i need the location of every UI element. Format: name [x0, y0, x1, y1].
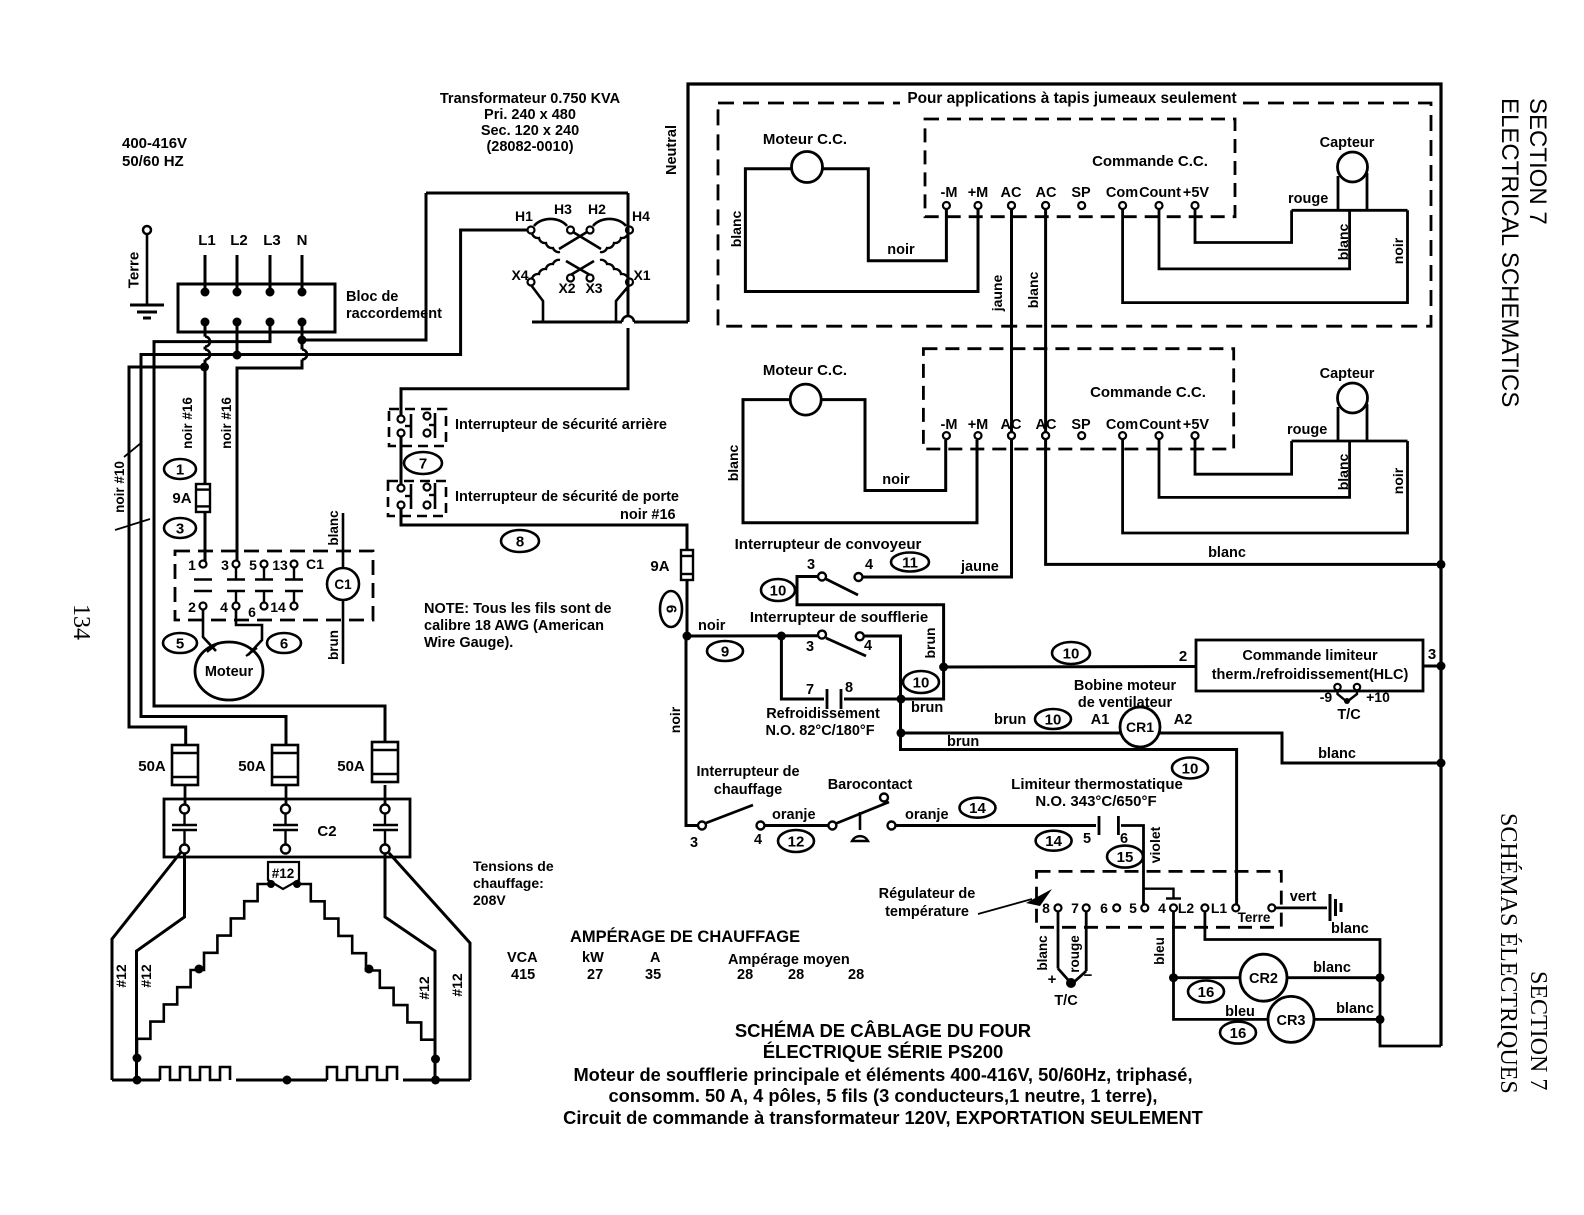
svg-text:Moteur C.C.: Moteur C.C.	[763, 362, 847, 379]
svg-text:X1: X1	[633, 267, 650, 283]
wire X1 to secondary bus	[616, 285, 630, 322]
wire noir M1	[823, 169, 947, 261]
svg-text:6: 6	[1100, 900, 1108, 916]
svg-text:5: 5	[1083, 831, 1091, 847]
svg-text:Capteur: Capteur	[1320, 135, 1375, 151]
heater node #12 tag	[267, 862, 301, 889]
svg-text:+10: +10	[1366, 689, 1390, 705]
thermal limit control HLC box	[1196, 640, 1423, 691]
svg-text:consomm. 50 A, 4 pôles, 5 fils: consomm. 50 A, 4 pôles, 5 fils (3 conduc…	[609, 1085, 1158, 1106]
temperature regulator label	[879, 886, 1052, 920]
svg-text:9A: 9A	[650, 558, 669, 575]
svg-text:(28082-0010): (28082-0010)	[486, 139, 573, 155]
svg-text:C2: C2	[317, 823, 336, 840]
transformer label	[440, 91, 621, 155]
svg-text:+5V: +5V	[1183, 417, 1210, 433]
svg-text:VCA: VCA	[507, 950, 538, 966]
transformer primary winding	[528, 219, 634, 252]
C1 terminal labels bottom	[188, 599, 286, 620]
svg-text:L3: L3	[263, 232, 281, 249]
svg-text:Terre: Terre	[1238, 910, 1271, 925]
svg-text:SCHÉMAS ÉLECTRIQUES: SCHÉMAS ÉLECTRIQUES	[1495, 813, 1521, 1094]
svg-text:14: 14	[270, 599, 286, 615]
node 14 oval (left)	[960, 798, 996, 818]
fuse F1 50A	[138, 745, 198, 785]
svg-text:3: 3	[806, 639, 814, 655]
wire rouge S2	[1195, 422, 1327, 474]
svg-text:Bloc de: Bloc de	[346, 289, 398, 305]
conveyor switch	[807, 557, 873, 595]
svg-text:blanc: blanc	[1025, 272, 1041, 309]
svg-text:AMPÉRAGE DE CHAUFFAGE: AMPÉRAGE DE CHAUFFAGE	[570, 927, 800, 946]
wire C1-2 to motor	[203, 610, 218, 653]
svg-text:noir: noir	[887, 242, 915, 258]
rear safety switch Interrupteur de securite arriere	[389, 409, 446, 446]
svg-text:4: 4	[754, 832, 762, 848]
wire noir S2	[1123, 439, 1408, 533]
wire CR3 blanc	[1314, 1001, 1385, 1024]
svg-text:Ampérage moyen: Ampérage moyen	[728, 952, 850, 968]
node 6 oval	[267, 633, 301, 653]
svg-text:10: 10	[1182, 760, 1199, 777]
heater rail dots	[133, 1076, 441, 1085]
wire transformer top feed	[426, 192, 628, 195]
amperage table values	[511, 967, 864, 983]
sensor bar (lower)	[1292, 440, 1408, 443]
svg-text:blanc: blanc	[725, 445, 741, 482]
svg-text:Interrupteur de convoyeur: Interrupteur de convoyeur	[735, 536, 922, 553]
svg-text:AC: AC	[1001, 185, 1022, 201]
blower switch	[806, 631, 872, 656]
wire noir to blower switch	[687, 632, 818, 641]
svg-text:Commande C.C.: Commande C.C.	[1092, 153, 1208, 170]
cooling contact label	[765, 706, 880, 739]
svg-text:blanc: blanc	[1313, 960, 1351, 976]
svg-text:#12: #12	[416, 976, 432, 1000]
svg-text:6: 6	[280, 635, 288, 652]
wire secondary bus with crossover	[532, 316, 688, 322]
svg-text:chauffage:: chauffage:	[473, 875, 544, 891]
svg-text:L2: L2	[1178, 900, 1195, 916]
svg-text:H1: H1	[515, 208, 533, 224]
relay coil C1	[327, 568, 359, 600]
blower motor Moteur	[195, 642, 263, 700]
svg-text:N.O. 343°C/650°F: N.O. 343°C/650°F	[1035, 793, 1156, 810]
node 10 oval (regulator feed)	[1172, 758, 1208, 779]
wire rouge S1	[1195, 191, 1328, 243]
svg-text:+M: +M	[968, 185, 989, 201]
svg-text:SCHÉMA DE CÂBLAGE DU FOUR: SCHÉMA DE CÂBLAGE DU FOUR	[735, 1020, 1031, 1041]
svg-text:A: A	[650, 950, 661, 966]
svg-text:35: 35	[645, 967, 661, 983]
svg-text:8: 8	[1042, 900, 1050, 916]
svg-text:27: 27	[587, 967, 603, 983]
svg-text:Terre: Terre	[125, 252, 142, 288]
svg-text:NOTE: Tous les fils sont de: NOTE: Tous les fils sont de	[424, 601, 611, 617]
svg-text:Neutral: Neutral	[664, 125, 680, 175]
transformer secondary winding	[528, 260, 634, 286]
svg-text:brun: brun	[947, 734, 979, 750]
transformer terminal labels H	[515, 201, 650, 224]
DC motor M2	[790, 384, 821, 415]
svg-text:Com: Com	[1106, 417, 1138, 433]
svg-text:50A: 50A	[138, 758, 166, 775]
wire noir S1	[1123, 209, 1408, 303]
relay coil CR3	[1268, 996, 1314, 1042]
svg-text:jaune: jaune	[960, 559, 999, 575]
svg-text:noir: noir	[667, 706, 683, 733]
svg-text:noir: noir	[1390, 237, 1406, 264]
svg-text:SECTION 7: SECTION 7	[1524, 98, 1551, 225]
svg-text:10: 10	[1045, 711, 1062, 728]
svg-text:violet: violet	[1147, 826, 1163, 863]
svg-text:#12: #12	[449, 973, 465, 997]
DC control box (upper)	[925, 119, 1235, 217]
terminal labels lower control	[941, 417, 1210, 433]
svg-text:415: 415	[511, 967, 535, 983]
wire blanc stub to C1 coil	[326, 510, 343, 568]
relay coil CR2	[1240, 954, 1287, 1001]
wire heater inner right	[385, 853, 435, 1080]
svg-text:oranje: oranje	[772, 807, 816, 823]
wire heater outer left	[112, 852, 181, 1080]
svg-text:3: 3	[690, 835, 698, 851]
svg-text:N: N	[297, 232, 308, 249]
wire L3 to fuse F3 feed	[154, 324, 385, 741]
amperage table headers	[507, 950, 850, 968]
svg-text:1: 1	[176, 461, 184, 478]
node 8 oval	[501, 530, 539, 552]
svg-text:7: 7	[806, 682, 814, 698]
svg-text:12: 12	[788, 833, 805, 850]
svg-text:28: 28	[788, 967, 804, 983]
svg-text:3: 3	[807, 557, 815, 573]
cooling contact Refroidissement	[781, 636, 943, 709]
svg-text:10: 10	[1063, 645, 1080, 662]
node 9 oval (vertical)	[660, 591, 682, 627]
svg-text:5: 5	[176, 635, 184, 652]
junction dots blower	[897, 663, 949, 738]
svg-text:blanc: blanc	[1331, 921, 1369, 937]
svg-text:3: 3	[1428, 646, 1436, 663]
node 14 oval (right)	[1036, 831, 1072, 851]
svg-text:X2: X2	[558, 280, 575, 296]
fuse F2 50A	[238, 745, 298, 785]
svg-text:oranje: oranje	[905, 807, 949, 823]
heating switch	[690, 805, 765, 851]
svg-text:6: 6	[248, 604, 256, 620]
svg-text:Capteur: Capteur	[1320, 366, 1375, 382]
svg-text:3: 3	[176, 520, 184, 537]
sensor bar (upper)	[1292, 209, 1408, 212]
svg-text:1: 1	[188, 557, 196, 573]
svg-text:7: 7	[419, 455, 427, 472]
svg-text:de ventilateur: de ventilateur	[1078, 695, 1173, 711]
svg-text:Régulateur de: Régulateur de	[879, 886, 976, 902]
svg-text:Limiteur thermostatique: Limiteur thermostatique	[1011, 776, 1183, 793]
svg-text:brun: brun	[326, 630, 341, 660]
wire heater inner left	[137, 853, 185, 1080]
node 3 oval	[164, 518, 196, 538]
svg-text:X3: X3	[585, 280, 602, 296]
node 5 oval	[163, 633, 197, 653]
svg-text:noir #16: noir #16	[180, 397, 195, 449]
heater junction dots	[133, 965, 441, 1064]
svg-text:Count: Count	[1139, 417, 1181, 433]
heating switch label	[696, 764, 799, 798]
svg-text:50A: 50A	[337, 758, 365, 775]
svg-text:Circuit de commande à transfor: Circuit de commande à transformateur 120…	[563, 1107, 1203, 1128]
svg-text:Count: Count	[1139, 185, 1181, 201]
wire door switch to fuse 9A	[401, 509, 687, 550]
svg-text:9: 9	[663, 605, 680, 613]
wire L2 bus to transformer H1	[141, 230, 528, 744]
wire A2 to blanc bus	[1160, 712, 1446, 768]
svg-text:Bobine moteur: Bobine moteur	[1074, 678, 1177, 694]
terminal block Bloc de raccordement	[178, 255, 335, 332]
svg-text:therm./refroidissement(HLC): therm./refroidissement(HLC)	[1212, 667, 1409, 683]
wire X4 to secondary bus	[531, 285, 543, 322]
svg-text:Commande C.C.: Commande C.C.	[1090, 384, 1206, 401]
wire blanc S2	[1159, 439, 1351, 497]
thermocouple T/C (regulator)	[1035, 911, 1093, 1009]
feeder pins overlay	[1008, 202, 1049, 439]
wire noir M2	[822, 400, 946, 491]
svg-text:X4: X4	[511, 267, 528, 283]
contactor C1 terminals	[200, 561, 298, 610]
svg-text:noir: noir	[698, 618, 726, 634]
svg-text:C1: C1	[334, 577, 352, 592]
svg-text:jaune: jaune	[989, 275, 1005, 313]
svg-text:blanc: blanc	[1335, 454, 1351, 491]
svg-text:CR3: CR3	[1276, 1013, 1305, 1029]
svg-text:A1: A1	[1091, 712, 1110, 728]
svg-text:noir: noir	[1390, 467, 1406, 494]
svg-text:4: 4	[220, 599, 228, 615]
wire oranje 2	[896, 807, 1097, 826]
svg-text:+5V: +5V	[1183, 185, 1210, 201]
svg-text:L1: L1	[1211, 900, 1228, 916]
svg-text:4: 4	[865, 557, 873, 573]
svg-text:blanc: blanc	[1208, 545, 1246, 561]
svg-text:blanc: blanc	[326, 510, 341, 546]
wire noir down to heat switch	[667, 636, 699, 826]
svg-text:10: 10	[770, 582, 787, 599]
svg-text:10: 10	[913, 674, 930, 691]
svg-text:Pri. 240 x 480: Pri. 240 x 480	[484, 107, 576, 123]
svg-text:15: 15	[1117, 849, 1134, 866]
svg-text:H4: H4	[632, 208, 650, 224]
contactor C1 box	[175, 551, 373, 620]
wire heater outer right	[389, 853, 470, 1080]
svg-text:134: 134	[68, 604, 94, 640]
DC control box (lower)	[923, 349, 1233, 449]
svg-text:ÉLECTRIQUE SÉRIE PS200: ÉLECTRIQUE SÉRIE PS200	[763, 1041, 1004, 1062]
svg-text:brun: brun	[911, 700, 943, 716]
fan motor coil label	[1074, 678, 1177, 711]
svg-text:Tensions de: Tensions de	[473, 858, 554, 874]
svg-text:Interrupteur de soufflerie: Interrupteur de soufflerie	[750, 609, 928, 626]
svg-text:Refroidissement: Refroidissement	[766, 706, 880, 722]
svg-text:blanc: blanc	[1035, 935, 1050, 971]
wire 10 to HLC	[944, 642, 1196, 667]
svg-text:A2: A2	[1174, 712, 1193, 728]
heating voltage label	[473, 858, 554, 908]
svg-text:28: 28	[848, 967, 864, 983]
svg-text:208V: 208V	[473, 892, 506, 908]
svg-text:#12: #12	[272, 866, 295, 881]
svg-text:C1: C1	[306, 556, 324, 572]
wire C1-4 to motor	[236, 610, 262, 657]
svg-text:50A: 50A	[238, 758, 266, 775]
C1 contact symbols	[194, 568, 303, 603]
svg-text:chauffage: chauffage	[714, 782, 783, 798]
wire HLC to blanc bus	[1423, 662, 1446, 671]
heating element left diagonal	[137, 884, 271, 1056]
svg-text:2: 2	[188, 599, 196, 615]
svg-text:L2: L2	[230, 232, 248, 249]
svg-text:7: 7	[1071, 900, 1079, 916]
transformer terminal labels X	[511, 267, 650, 296]
wire L2 blanc	[1205, 911, 1441, 1046]
terminal block name	[346, 289, 442, 322]
svg-text:9: 9	[721, 643, 729, 660]
svg-text:Interrupteur de: Interrupteur de	[696, 764, 799, 780]
svg-text:H3: H3	[554, 201, 572, 217]
wire CR2 blanc	[1287, 960, 1385, 982]
fuse F3 50A	[337, 742, 398, 782]
svg-text:5: 5	[249, 557, 257, 573]
terminal labels upper control	[941, 185, 1210, 201]
svg-text:5: 5	[1129, 900, 1137, 916]
svg-text:bleu: bleu	[1152, 937, 1167, 965]
svg-text:#12: #12	[138, 964, 154, 988]
wire L1 noir #16 with crossovers	[200, 324, 210, 561]
wire blanc M1	[728, 169, 978, 292]
wire jaune AC feeder	[862, 209, 1012, 577]
wire vert to ground	[1275, 889, 1369, 937]
svg-text:noir #16: noir #16	[620, 507, 676, 523]
svg-text:Interrupteur de sécurité de po: Interrupteur de sécurité de porte	[455, 489, 679, 505]
svg-text:-M: -M	[941, 417, 958, 433]
thermal limiter contact	[1083, 816, 1144, 904]
svg-text:50/60 HZ: 50/60 HZ	[122, 153, 184, 170]
terminal pins lower control	[943, 432, 1199, 439]
svg-text:-9: -9	[1320, 689, 1333, 705]
svg-text:Moteur C.C.: Moteur C.C.	[763, 131, 847, 148]
svg-text:Pour applications à tapis jume: Pour applications à tapis jumeaux seulem…	[907, 90, 1236, 107]
contactor C2 box	[164, 799, 410, 857]
svg-text:calibre 18 AWG (American: calibre 18 AWG (American	[424, 618, 604, 634]
node 1 oval	[164, 459, 196, 479]
terminal pins upper control	[943, 202, 1199, 209]
temperature regulator box	[1037, 871, 1282, 927]
svg-text:AC: AC	[1036, 185, 1057, 201]
svg-text:11: 11	[902, 554, 918, 571]
node 16 oval (CR3)	[1220, 1022, 1256, 1044]
svg-text:-M: -M	[941, 185, 958, 201]
svg-text:température: température	[885, 904, 969, 920]
barocontact switch	[828, 794, 895, 842]
svg-text:Moteur de soufflerie principal: Moteur de soufflerie principale et éléme…	[573, 1064, 1192, 1085]
node 16 oval (CR2)	[1188, 981, 1224, 1003]
door safety switch Interrupteur de securite de porte	[388, 481, 446, 516]
twin-belt dashed enclosure	[718, 88, 1431, 326]
wire to CR2	[1174, 976, 1241, 979]
svg-text:+: +	[1048, 971, 1057, 988]
node 11 oval	[891, 553, 929, 572]
svg-text:−: −	[1084, 967, 1093, 984]
svg-text:rouge: rouge	[1288, 191, 1328, 207]
wire conveyor to jaune	[863, 576, 1010, 579]
ground Terre	[125, 226, 164, 318]
svg-text:16: 16	[1230, 1025, 1247, 1042]
svg-text:brun: brun	[994, 712, 1026, 728]
node 15 oval	[1107, 846, 1143, 868]
svg-text:16: 16	[1198, 984, 1215, 1001]
svg-text:bleu: bleu	[1225, 1004, 1255, 1020]
wire conveyor return	[797, 577, 944, 664]
svg-text:2: 2	[1179, 648, 1187, 665]
svg-text:blanc: blanc	[728, 211, 744, 248]
node 7 oval	[404, 452, 442, 474]
wire blanc M2	[725, 400, 977, 523]
svg-text:3: 3	[221, 557, 229, 573]
svg-text:ELECTRICAL SCHEMATICS: ELECTRICAL SCHEMATICS	[1496, 98, 1523, 407]
svg-text:8: 8	[516, 533, 524, 550]
wire between safety switches	[400, 437, 403, 484]
svg-text:blanc: blanc	[1318, 746, 1356, 762]
voltage rating label	[122, 135, 187, 170]
svg-text:H2: H2	[588, 201, 606, 217]
wire oranje 1	[765, 807, 829, 826]
fuse 9A (blower control)	[172, 484, 210, 512]
regulator pins	[1055, 904, 1276, 911]
wire bleu to relays	[1152, 911, 1268, 1019]
C2 pole 3	[373, 785, 398, 854]
svg-text:Barocontact: Barocontact	[828, 777, 913, 793]
node 9 oval (blower)	[707, 641, 743, 661]
svg-text:400-416V: 400-416V	[122, 135, 187, 152]
svg-text:L1: L1	[198, 232, 216, 249]
jumper 5 to 4	[1144, 889, 1182, 899]
svg-text:CR2: CR2	[1249, 971, 1278, 987]
node 10 oval (brun)	[903, 671, 939, 693]
svg-text:#12: #12	[113, 964, 129, 988]
svg-text:Wire Gauge).: Wire Gauge).	[424, 635, 513, 651]
svg-text:14: 14	[1045, 833, 1062, 850]
wire blanc S1	[1159, 209, 1351, 269]
wire blower sw to junction	[864, 636, 1237, 904]
svg-text:SP: SP	[1071, 417, 1091, 433]
wire H4-X1 drop to safety switches	[401, 193, 628, 416]
svg-text:Commande limiteur: Commande limiteur	[1242, 648, 1378, 664]
junction noir	[683, 632, 692, 641]
svg-text:kW: kW	[582, 950, 604, 966]
wire 9A to noir node	[686, 580, 689, 636]
svg-text:8: 8	[845, 680, 853, 696]
svg-text:brun: brun	[922, 627, 938, 658]
svg-text:9A: 9A	[172, 490, 191, 507]
svg-text:14: 14	[969, 800, 986, 817]
svg-text:T/C: T/C	[1054, 993, 1078, 1009]
wire Neutral bus frame	[688, 84, 1441, 1046]
svg-text:SECTION 7: SECTION 7	[1525, 971, 1551, 1090]
svg-text:Sec. 120 x 240: Sec. 120 x 240	[481, 123, 579, 139]
svg-text:4: 4	[1158, 900, 1166, 916]
svg-text:vert: vert	[1290, 889, 1317, 905]
sensor S2	[1338, 383, 1368, 441]
